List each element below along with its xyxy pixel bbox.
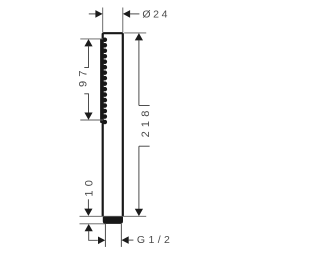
- dimension 10 line: [87, 199, 89, 210]
- handle outline: [103, 33, 123, 216]
- svg-text:97: 97: [77, 66, 89, 87]
- dimension O24 right arrow: [123, 10, 139, 18]
- svg-text:Ø24: Ø24: [142, 9, 170, 21]
- dimension 218 line upper: [138, 40, 140, 106]
- dimension 97 bottom arrow: [84, 113, 92, 120]
- extension line bottom (cap top): [80, 215, 147, 217]
- dimension 218 gap dash lower: [139, 145, 150, 147]
- dimension 10 down arrow: [84, 209, 92, 216]
- extension line 97 top: [80, 38, 103, 40]
- dimension 218 line lower: [138, 146, 140, 210]
- svg-text:218: 218: [140, 106, 152, 137]
- svg-text:10: 10: [84, 176, 96, 197]
- extension line cap bottom: [80, 223, 106, 225]
- G1/2 right-pointing arrow: [98, 237, 105, 245]
- dimension 97 line lower: [88, 94, 90, 114]
- dimension 97 top arrow: [84, 39, 92, 46]
- dimension 218 bottom arrow: [135, 209, 143, 216]
- spray cap (black): [103, 216, 123, 223]
- extension line 97 bottom: [80, 119, 103, 121]
- extension line top-right (O24): [122, 8, 124, 33]
- extension line 218 top: [124, 32, 146, 34]
- knurl grip ribs: [100, 38, 107, 125]
- G1/2 left-pointing arrow: [122, 236, 134, 244]
- thread stub G1/2: [104, 224, 106, 247]
- dimension 97 gap dash upper: [84, 67, 89, 69]
- dimension 218 top arrow: [135, 33, 143, 40]
- dimension 97 line upper: [88, 46, 90, 68]
- dimension 218 gap dash upper: [139, 105, 150, 107]
- svg-text:G1/2: G1/2: [137, 234, 173, 246]
- leader from 10 up-arrow to G1/2 line: [89, 231, 98, 241]
- dimension 97 gap dash lower: [84, 93, 89, 95]
- dimension 10 up arrow (below cap): [85, 224, 93, 231]
- extension line top-left (O24): [102, 8, 104, 33]
- dimension O24 left arrow: [89, 10, 103, 18]
